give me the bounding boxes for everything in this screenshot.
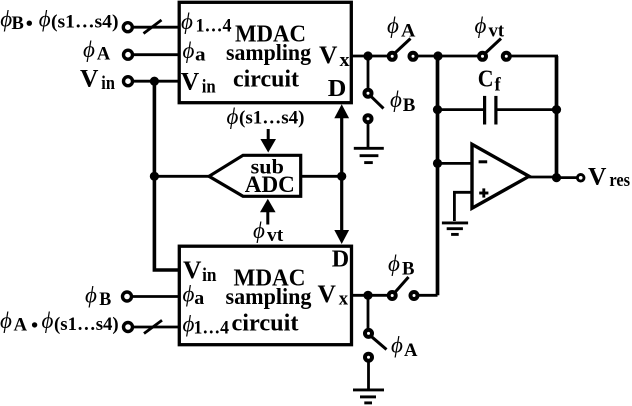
pin Vin bottom [183, 255, 217, 286]
ground [354, 148, 384, 162]
svg-text:B: B [99, 290, 111, 310]
switch phiB top [365, 90, 372, 97]
node Cf right junction [552, 105, 561, 114]
svg-text:A: A [97, 45, 111, 65]
switch phiA top [389, 53, 396, 60]
svg-text:B: B [403, 96, 416, 116]
node Vin junction top [150, 77, 159, 86]
svg-text:x: x [339, 290, 349, 310]
svg-text:ϕ: ϕ [183, 282, 195, 307]
wire [418, 294, 438, 297]
svg-text:V: V [181, 67, 200, 96]
pin Vin top [181, 67, 217, 98]
svg-text:in: in [202, 266, 217, 286]
label phiA.phi(s1...s4) [0, 308, 119, 336]
pin phia top [183, 38, 206, 65]
svg-text:ϕ: ϕ [391, 333, 403, 358]
svg-text:ϕ: ϕ [253, 218, 265, 243]
label phi(s1...s4) [227, 104, 305, 129]
label Vin [80, 63, 116, 94]
svg-text:ϕ: ϕ [83, 37, 95, 62]
svg-text:ϕ: ϕ [0, 6, 12, 31]
label phivt switch [475, 13, 505, 41]
svg-text:sampling: sampling [226, 40, 311, 65]
node sub ADC input junction [150, 172, 159, 181]
wire [133, 80, 180, 83]
label phiB switch bottom [388, 251, 415, 279]
svg-text:A: A [401, 21, 416, 41]
ground [353, 390, 384, 403]
wire sub ADC output [301, 175, 342, 178]
pin phi1...4 bottom [183, 312, 230, 339]
svg-text:(s1…s4): (s1…s4) [239, 109, 305, 129]
wire [133, 326, 180, 329]
ground [442, 223, 468, 235]
pin Vx bottom [318, 279, 349, 310]
svg-text:ϕ: ϕ [85, 282, 97, 307]
svg-text:ϕ: ϕ [388, 251, 400, 276]
node inverting input junction [433, 159, 442, 168]
terminal phiA.phis1s4 bottom [124, 323, 133, 332]
terminal phiB.phis1s4 top [123, 23, 132, 32]
svg-text:ϕ: ϕ [390, 87, 402, 112]
wire left rail [154, 81, 179, 270]
svg-text:ϕ: ϕ [475, 13, 487, 38]
svg-text:1…4: 1…4 [194, 319, 230, 339]
node sub ADC output junction [337, 172, 346, 181]
bus slash [144, 320, 162, 333]
svg-text:A: A [14, 316, 28, 336]
node Cf left junction [433, 105, 442, 114]
svg-text:B: B [12, 14, 24, 34]
svg-text:ϕ: ϕ [227, 104, 239, 129]
wire [417, 55, 479, 58]
terminal phiB bottom [123, 292, 132, 301]
svg-text:circuit: circuit [232, 311, 299, 337]
sub ADC U3 [209, 155, 301, 196]
svg-text:V: V [588, 161, 607, 190]
wire [510, 55, 558, 58]
switch phiA bottom [367, 295, 370, 329]
pin phia bottom [183, 282, 205, 309]
wire [367, 361, 370, 389]
wire Vx bottom [352, 294, 390, 297]
pin Vx top [319, 40, 350, 71]
svg-text:ϕ: ϕ [387, 13, 399, 38]
switch phiB bottom [389, 292, 396, 299]
wire phivt arrow into sub ADC [266, 212, 269, 225]
svg-text:A: A [404, 341, 418, 361]
svg-text:in: in [202, 78, 217, 98]
svg-text:f: f [495, 75, 502, 95]
wire inverting input [438, 162, 472, 165]
svg-text:a: a [194, 289, 204, 309]
svg-text:ϕ: ϕ [39, 6, 51, 31]
svg-text:V: V [183, 255, 202, 284]
svg-text:ϕ: ϕ [181, 9, 193, 34]
svg-text:vt: vt [267, 226, 284, 246]
wire [133, 53, 180, 56]
bus slash [144, 20, 162, 34]
svg-text:circuit: circuit [233, 66, 299, 92]
svg-text:C: C [478, 67, 494, 93]
wire sub ADC input [154, 175, 209, 178]
label phiA switch top [387, 13, 416, 41]
node A [433, 51, 442, 60]
label phiB switch top [390, 87, 415, 116]
svg-text:ϕ: ϕ [42, 308, 54, 333]
terminal Vres [577, 175, 584, 182]
svg-text:x: x [340, 51, 351, 71]
wire D bus double arrow [340, 114, 343, 234]
svg-text:ϕ: ϕ [183, 38, 195, 63]
pin phi1...4 top [181, 9, 232, 36]
svg-text:(s1…s4): (s1…s4) [54, 315, 119, 335]
svg-text:D: D [328, 76, 347, 102]
svg-text:res: res [609, 171, 630, 191]
node Vx top junction [363, 51, 372, 60]
capacitor C_f [438, 108, 484, 111]
wire feedback left rail [436, 56, 440, 295]
svg-text:ϕ: ϕ [0, 308, 12, 333]
svg-text:(s1…s4): (s1…s4) [51, 13, 119, 33]
svg-text:a: a [195, 46, 206, 66]
op-amp U4 [472, 144, 529, 208]
svg-text:vt: vt [489, 21, 505, 41]
label Vres [588, 161, 630, 191]
wire [367, 122, 370, 147]
svg-text:D: D [332, 247, 349, 273]
svg-text:sampling: sampling [226, 284, 312, 309]
top MDAC block U1 [179, 2, 351, 102]
label phiA switch bottom [391, 333, 418, 361]
svg-text:V: V [80, 63, 99, 92]
svg-text:ADC: ADC [245, 172, 295, 197]
wire Vx top [351, 55, 389, 58]
svg-text:V: V [319, 40, 338, 69]
wire to phiB switch top [367, 56, 370, 90]
wire right rail [555, 56, 559, 178]
svg-text:in: in [101, 74, 115, 94]
node Vx bottom junction [363, 291, 372, 300]
node output junction [552, 173, 561, 182]
svg-text:B: B [402, 260, 415, 280]
wire phi(s1...s4) arrow into sub ADC [267, 129, 270, 141]
wire [133, 26, 180, 29]
label phiB terminal [85, 282, 111, 310]
label phiA [83, 37, 111, 65]
terminal phiA top [124, 50, 133, 59]
wire [132, 295, 180, 298]
terminal Vin [124, 77, 133, 86]
wire output [529, 176, 553, 179]
svg-text:V: V [318, 279, 337, 308]
wire non-inverting input [454, 192, 471, 221]
label phiB.phi(s1...s4) [0, 6, 118, 34]
svg-text:1…4: 1…4 [196, 16, 232, 36]
label phivt below [253, 218, 284, 246]
switch phivt [479, 53, 486, 60]
bottom MDAC block U2 [179, 246, 351, 345]
label Cf [478, 67, 502, 96]
